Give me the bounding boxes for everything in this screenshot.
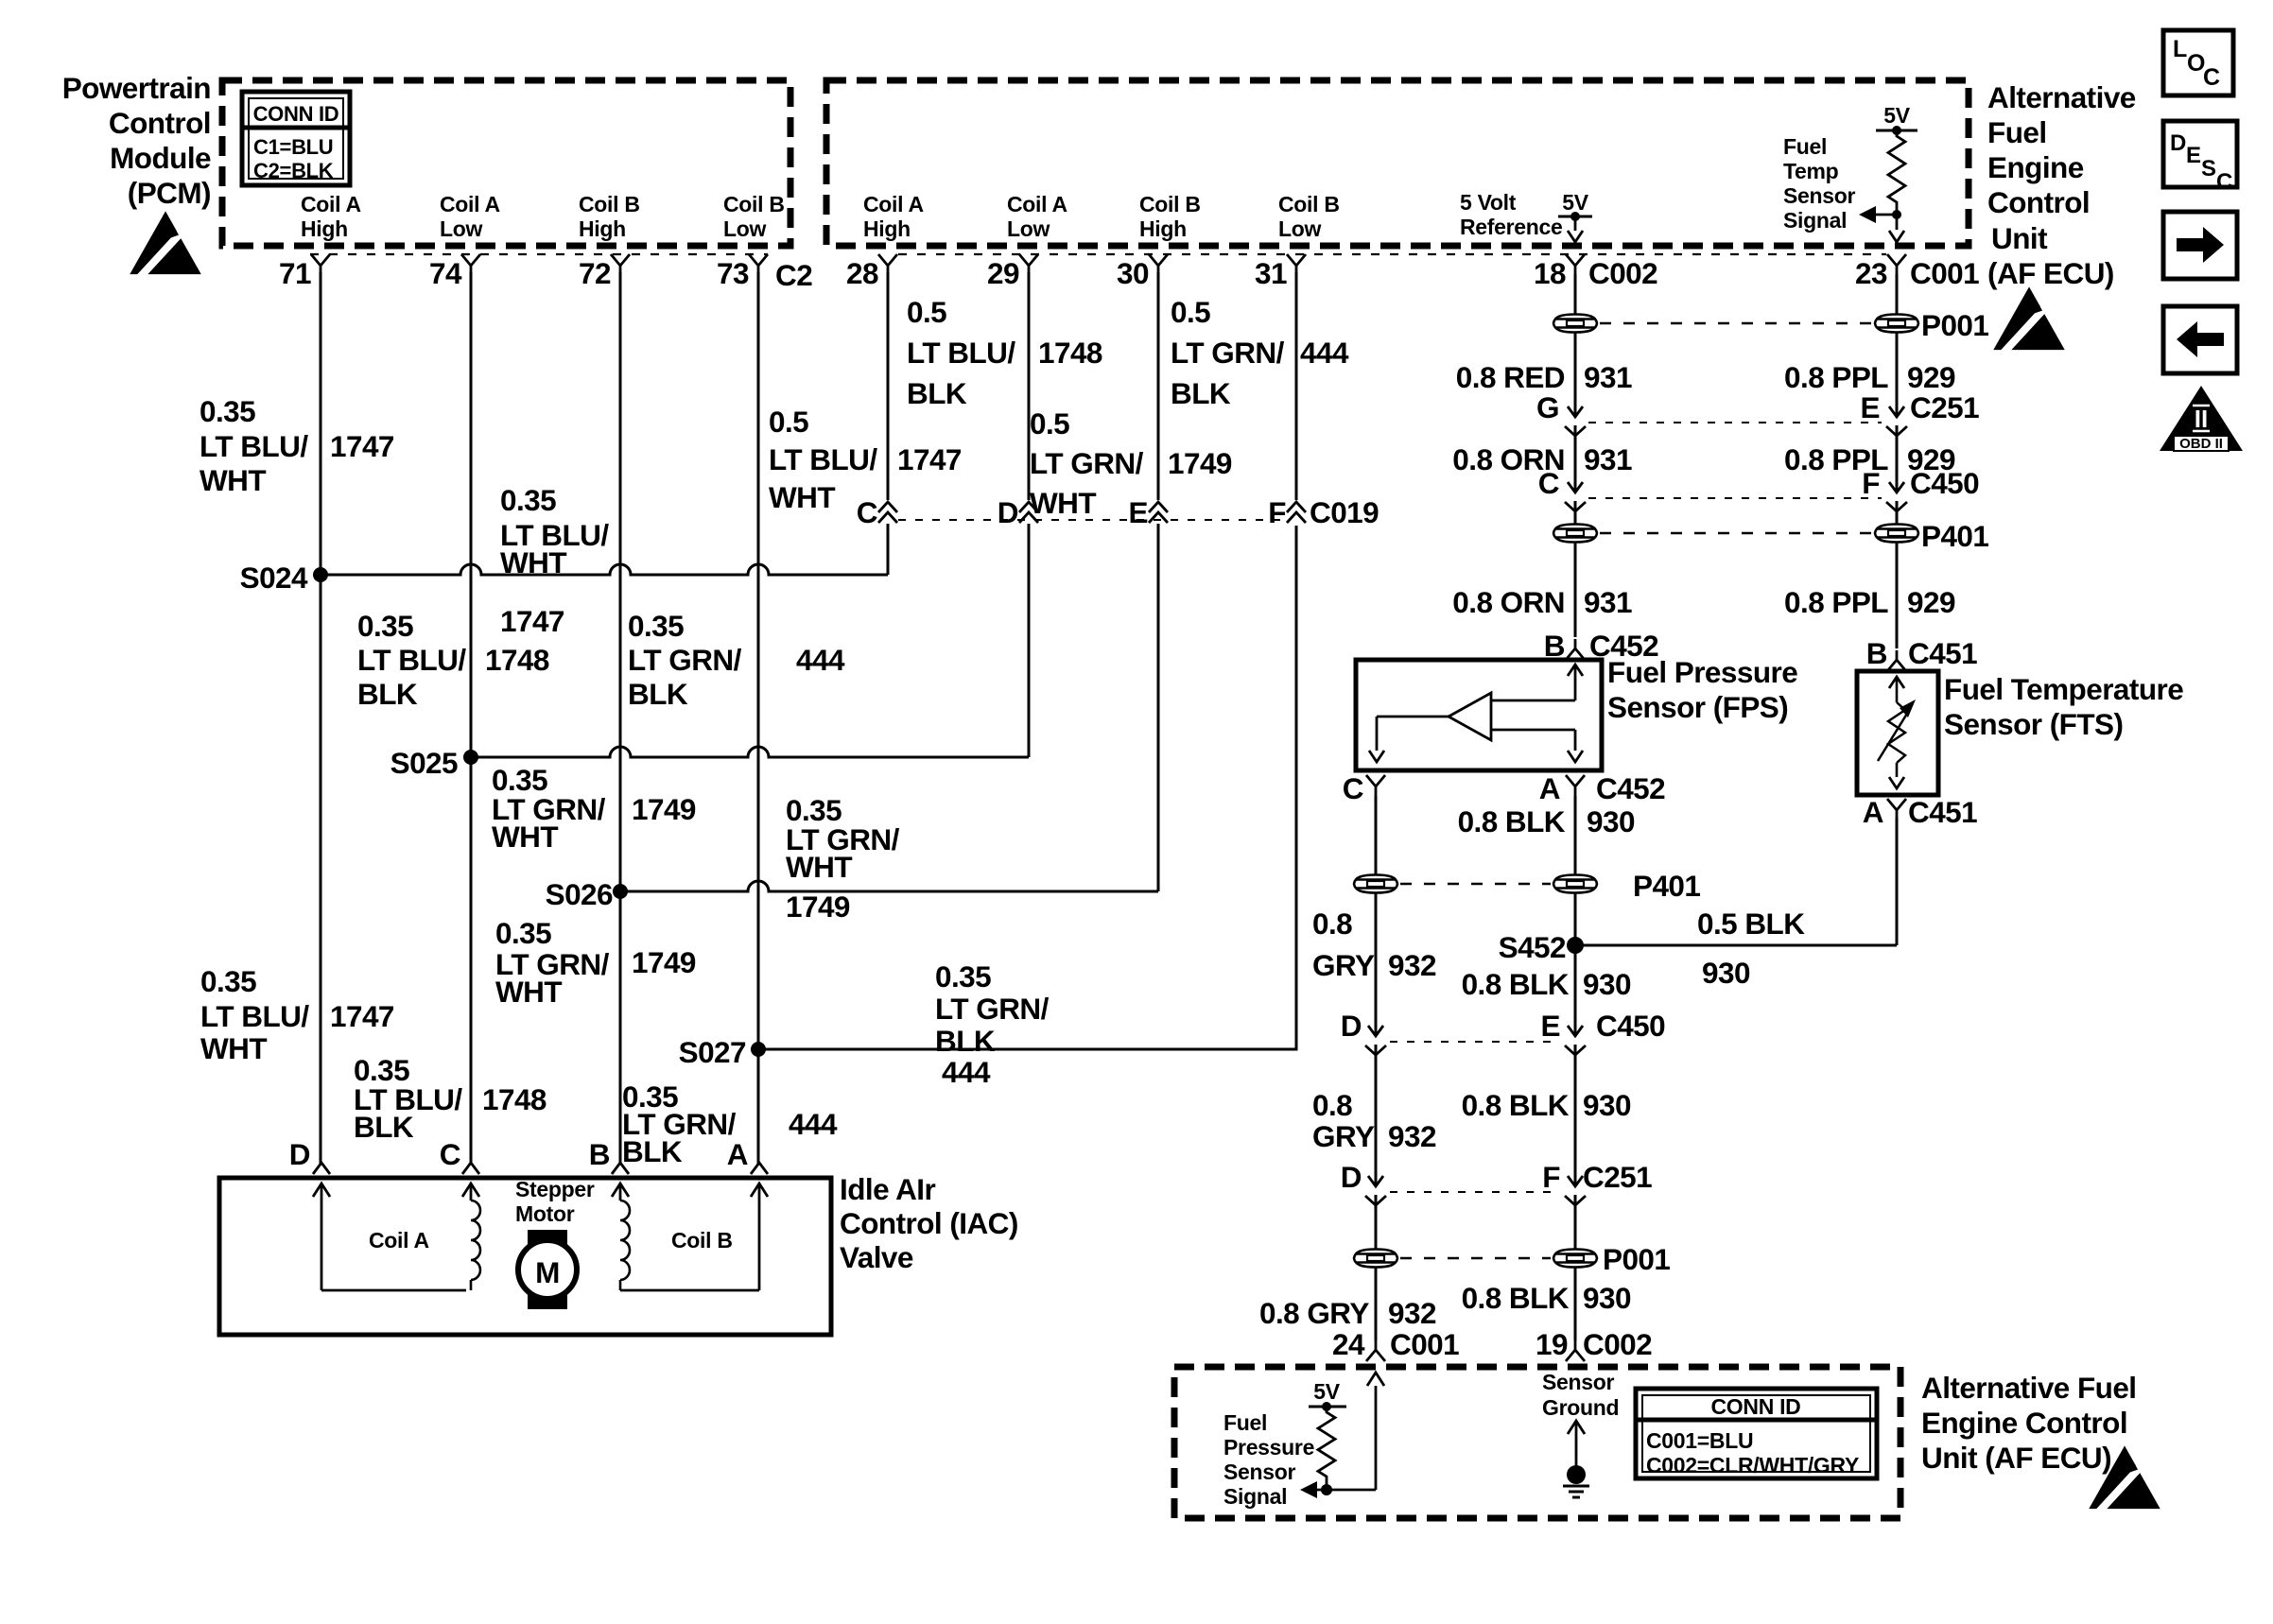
svg-text:Sensor: Sensor [1223,1460,1296,1484]
svg-text:931: 931 [1584,442,1632,476]
svg-text:0.8 BLK: 0.8 BLK [1462,967,1570,1001]
svg-text:0.8 BLK: 0.8 BLK [1458,804,1566,838]
svg-text:C450: C450 [1910,466,1979,500]
svg-text:0.35: 0.35 [200,394,255,428]
svg-text:0.5: 0.5 [907,295,946,329]
P401 grommet right top [1875,525,1918,543]
S026 wire to C019 E [620,881,1158,891]
svg-text:High: High [1139,216,1187,241]
svg-text:LT BLU/: LT BLU/ [200,999,309,1033]
FTS title [1944,672,2183,741]
svg-text:Unit: Unit [1991,221,2048,255]
svg-text:Sensor (FTS): Sensor (FTS) [1944,707,2123,741]
svg-text:C450: C450 [1596,1009,1665,1043]
svg-text:GRY: GRY [1312,948,1375,982]
svg-text:929: 929 [1907,360,1955,394]
label 0.35 LT GRN/BLK 444 on S027 wire [935,959,1050,1089]
label 0.5 LT GRN/WHT 1749 pinE wire [1030,406,1232,520]
label 0.8 BLK 930 seg3 [1462,1088,1631,1122]
svg-text:BLK: BLK [935,1024,996,1058]
svg-text:WHT: WHT [492,820,558,854]
svg-text:0.5: 0.5 [1030,406,1069,441]
label 0.8 RED 931 [1456,360,1632,394]
svg-text:5V: 5V [1562,190,1588,215]
svg-text:D: D [998,495,1018,529]
svg-text:1747: 1747 [330,429,394,463]
svg-text:Low: Low [1278,216,1321,241]
svg-text:Module: Module [110,141,211,175]
svg-text:1749: 1749 [632,792,696,826]
svg-text:E: E [2186,143,2201,168]
svg-text:G: G [1536,390,1559,424]
PCM pin 74 Coil A Low [429,192,500,290]
svg-text:Fuel Pressure: Fuel Pressure [1607,655,1797,689]
svg-text:Engine Control: Engine Control [1921,1406,2127,1440]
label 0.8 ORN 931 seg3 [1452,585,1632,619]
LOC icon [2163,30,2233,95]
svg-text:1748: 1748 [1038,336,1102,370]
IAC title [840,1172,1018,1274]
svg-text:BLK: BLK [357,677,418,711]
svg-text:LT GRN/: LT GRN/ [628,643,742,677]
P401 dashed link top [1600,532,1872,535]
svg-text:LT BLU/: LT BLU/ [769,442,877,476]
DESC icon [2163,121,2237,195]
svg-text:0.35: 0.35 [935,959,991,993]
svg-text:Coil B: Coil B [579,192,640,216]
svg-text:GRY: GRY [1312,1119,1375,1153]
svg-text:1747: 1747 [330,999,394,1033]
svg-text:P401: P401 [1633,869,1700,903]
C019 pin D [998,272,1038,757]
svg-text:74: 74 [429,256,462,290]
PCM connector C2 line [310,253,768,255]
IAC pin D [289,1137,330,1174]
wire 931 seg1 [1574,333,1577,417]
svg-text:LT BLU/: LT BLU/ [200,429,308,463]
C450 dashed row top [1588,497,1882,499]
svg-text:BLK: BLK [354,1110,414,1144]
S452 wire to FTS [1575,818,1897,945]
C251 connector G [1536,390,1586,492]
svg-text:932: 932 [1388,1119,1436,1153]
AF pin 29 Coil A Low [987,192,1067,290]
S025 wire to C019 D [471,747,1029,757]
svg-text:C451: C451 [1908,636,1977,670]
Fuel Pressure Sensor Signal label [1223,1410,1314,1509]
svg-text:Ground: Ground [1542,1395,1619,1420]
P001 dashed link top [1600,322,1872,325]
svg-text:929: 929 [1907,585,1955,619]
C019 pin F [1268,272,1379,529]
svg-text:C: C [857,495,877,529]
svg-text:0.35: 0.35 [200,964,256,998]
P001 dashed link low [1400,1257,1551,1260]
svg-text:Alternative Fuel: Alternative Fuel [1921,1371,2137,1405]
svg-text:A: A [727,1137,748,1171]
FPS signal node and arrows [1300,1373,1384,1498]
svg-text:LT GRN/: LT GRN/ [935,992,1050,1026]
svg-text:S: S [2201,156,2216,181]
label 0.8 BLK 930 seg4 [1462,1281,1631,1315]
AF pin 30 Coil B High [1117,192,1201,290]
svg-text:5V: 5V [1883,103,1910,128]
svg-text:BLK: BLK [1171,376,1231,410]
svg-text:0.8 PPL: 0.8 PPL [1784,585,1888,619]
svg-text:Unit (AF ECU): Unit (AF ECU) [1921,1441,2111,1475]
wire to pin19 [1574,1268,1577,1340]
svg-text:Sensor (FPS): Sensor (FPS) [1607,690,1788,724]
AF pin 23 C001 [1855,254,1979,290]
svg-text:930: 930 [1702,956,1750,990]
wire FPS A down 930 [1574,796,1577,874]
C019 pin E [1129,272,1168,891]
splice S452 [1499,893,1584,1036]
svg-text:Fuel Temperature: Fuel Temperature [1944,672,2183,706]
svg-text:Reference: Reference [1460,215,1563,239]
svg-text:F: F [1862,466,1880,500]
PCM module dashed box [222,80,790,246]
C251 connector F low [1542,1160,1652,1249]
svg-text:931: 931 [1584,585,1632,619]
svg-text:WHT: WHT [786,850,852,884]
svg-text:C019: C019 [1310,495,1379,529]
svg-text:0.35: 0.35 [500,483,556,517]
svg-text:Temp: Temp [1783,159,1839,183]
C450 connector C [1538,466,1586,524]
IAC coil A loop [313,1183,480,1290]
svg-text:24: 24 [1332,1327,1365,1361]
IAC valve box [219,1178,831,1335]
svg-text:0.5 BLK: 0.5 BLK [1697,907,1805,941]
FTS signal arrow to left [1859,206,1904,242]
label 0.8 BLK 930 seg1 [1458,804,1635,838]
svg-text:1748: 1748 [485,643,549,677]
svg-text:S024: S024 [240,561,308,595]
wire 72 vertical [619,272,622,1165]
svg-text:WHT: WHT [200,463,266,497]
svg-text:931: 931 [1584,360,1632,394]
svg-text:930: 930 [1583,967,1631,1001]
splice S024 [240,561,328,595]
svg-text:D: D [289,1137,310,1171]
P001 grommet left top [1553,315,1597,333]
svg-text:WHT: WHT [500,545,566,579]
svg-text:1747: 1747 [897,442,962,476]
PCM pin 72 Coil B High [579,192,640,290]
svg-text:Engine: Engine [1987,150,2084,184]
svg-text:C: C [1343,771,1363,805]
svg-text:(PCM): (PCM) [128,176,211,210]
AF ECU bottom title [1921,1371,2137,1475]
svg-text:E: E [1861,390,1880,424]
svg-text:A: A [1539,771,1560,805]
svg-text:High: High [301,216,348,241]
svg-text:930: 930 [1583,1088,1631,1122]
svg-text:LT GRN/: LT GRN/ [1171,336,1285,370]
label 0.8 PPL 929 seg2 [1784,442,1955,476]
svg-text:F: F [1268,495,1286,529]
label 0.35 LT GRN/BLK 444 wire73 lower [622,1080,838,1168]
svg-text:WHT: WHT [495,975,562,1009]
C019 pin C [857,272,897,575]
svg-text:S027: S027 [679,1035,746,1069]
svg-text:0.8: 0.8 [1312,907,1352,941]
svg-text:Low: Low [1007,216,1050,241]
IAC pin A [727,1137,768,1174]
P401 grommet right mid [1553,875,1597,893]
svg-text:C: C [2203,64,2220,91]
svg-text:932: 932 [1388,1296,1436,1330]
label 0.8 GRY 932 third [1259,1296,1436,1330]
label 0.35 LT GRN/BLK 444 wire72 mid [628,609,845,711]
svg-text:OBD II: OBD II [2179,436,2223,452]
svg-text:LT GRN/: LT GRN/ [1030,446,1144,480]
svg-text:28: 28 [846,256,878,290]
wire 931 seg3 [1574,543,1577,637]
FTS pin B C451 [1866,636,1977,671]
svg-text:C001: C001 [1910,256,1979,290]
svg-text:Signal: Signal [1783,208,1847,233]
wire 73 vertical [757,272,760,1165]
label 0.35 LT BLU/WHT 1747 wire71 upper [200,394,394,497]
Fuel Pressure Sensor box [1356,660,1602,770]
svg-text:Coil A: Coil A [863,192,924,216]
svg-text:Fuel: Fuel [1987,115,2047,149]
P001 grommet right top [1875,315,1918,333]
IAC coil B loop [612,1183,768,1290]
svg-text:Fuel: Fuel [1223,1410,1267,1435]
svg-text:31: 31 [1255,256,1287,290]
wire 71 vertical [320,272,322,1165]
svg-text:D: D [2170,130,2186,156]
AF pin 18 5 Volt Reference [1460,190,1657,290]
svg-text:930: 930 [1587,804,1635,838]
CONN ID table PCM [242,92,350,185]
svg-text:Coil A: Coil A [301,192,361,216]
wire 929 seg1 [1896,333,1899,417]
P401 grommet left top [1553,525,1597,543]
svg-text:WHT: WHT [200,1031,267,1065]
svg-text:C: C [2216,169,2232,195]
label 0.35 LT BLU/BLK 1748 wire74 mid [357,609,549,711]
FTS pin A C451 [1863,795,1977,829]
svg-text:High: High [863,216,911,241]
svg-text:P001: P001 [1603,1242,1670,1276]
svg-text:C251: C251 [1910,390,1979,424]
svg-text:5 Volt: 5 Volt [1460,190,1517,215]
wire 929 seg3 [1896,543,1899,648]
svg-text:30: 30 [1117,256,1149,290]
splice S026 [546,877,628,911]
wire to pin24 [1375,1268,1378,1340]
svg-text:29: 29 [987,256,1019,290]
Sensor Ground label [1542,1370,1619,1420]
svg-text:444: 444 [942,1055,991,1089]
svg-text:Coil B: Coil B [671,1228,733,1253]
ESD symbol top right [1993,286,2064,355]
arrow left icon [2163,306,2237,373]
svg-text:0.8: 0.8 [1312,1088,1352,1122]
C251 dashed row top [1588,422,1882,423]
AF ECU top dashed box [826,80,1969,246]
svg-text:1749: 1749 [1168,446,1232,480]
svg-text:C1=BLU: C1=BLU [253,135,333,159]
AF pin 19 C002 [1536,1327,1652,1361]
svg-text:71: 71 [279,256,311,290]
FPS pin C [1343,771,1385,805]
splice S025 [390,746,478,780]
P001 grommet left low [1354,1250,1397,1268]
S027 wire right and up to C019 F [758,526,1296,1049]
svg-text:0.35: 0.35 [495,916,551,950]
FPS pin B C452 [1544,629,1658,663]
svg-text:Alternative: Alternative [1987,80,2136,114]
PCM pin 71 Coil A High [279,192,361,290]
svg-text:CONN ID: CONN ID [253,102,339,126]
label 0.8 BLK 930 seg2 [1462,967,1631,1001]
svg-text:72: 72 [579,256,611,290]
arrow right icon [2163,212,2237,279]
svg-text:C002: C002 [1583,1327,1652,1361]
Fuel Temp Sensor Signal label [1783,134,1856,233]
svg-text:C: C [440,1137,460,1171]
svg-text:C452: C452 [1596,771,1665,805]
svg-text:C001: C001 [1390,1327,1459,1361]
svg-text:WHT: WHT [769,480,835,514]
svg-text:0.8 PPL: 0.8 PPL [1784,360,1888,394]
C450 connector D mid [1341,1009,1386,1186]
label 0.8 GRY 932 first [1312,907,1436,982]
sensor ground symbol [1563,1421,1589,1497]
svg-text:0.8 BLK: 0.8 BLK [1462,1281,1570,1315]
svg-text:High: High [579,216,626,241]
svg-text:0.5: 0.5 [769,405,808,439]
svg-text:Pressure: Pressure [1223,1435,1314,1460]
stepper motor label [515,1177,595,1226]
svg-text:S025: S025 [390,746,458,780]
svg-text:F: F [1542,1160,1560,1194]
svg-text:0.8 RED: 0.8 RED [1456,360,1565,394]
ESD symbol PCM [130,211,200,280]
svg-text:Sensor: Sensor [1783,183,1856,208]
label 0.8 GRY 932 second [1312,1088,1436,1153]
svg-text:LT BLU/: LT BLU/ [907,336,1015,370]
svg-text:Low: Low [440,216,482,241]
OBD II icon [2160,386,2243,452]
5V supply symbol FTS signal [1876,103,1917,135]
ESD symbol bottom right [2089,1445,2160,1514]
svg-text:C451: C451 [1908,795,1977,829]
AF ECU title text top right [1987,80,2136,290]
svg-text:444: 444 [789,1107,838,1141]
svg-text:Stepper: Stepper [515,1177,595,1201]
FPS title [1607,655,1797,724]
wire GRY seg1 [1375,893,1378,1036]
PCM pin 73 Coil B Low [717,192,785,290]
svg-text:M: M [535,1255,560,1289]
svg-text:0.5: 0.5 [1171,295,1210,329]
svg-text:0.35: 0.35 [628,609,684,643]
IAC pin C [440,1137,479,1174]
svg-text:Coil B: Coil B [1278,192,1340,216]
wire FPS C down [1375,796,1378,874]
svg-text:C2=BLK: C2=BLK [253,159,334,182]
svg-text:1748: 1748 [482,1082,547,1116]
svg-text:Coil A: Coil A [1007,192,1067,216]
svg-text:B: B [589,1137,610,1171]
C019 connector row dashed [898,519,1286,521]
AF pin 24 C001 [1332,1327,1459,1361]
svg-text:Coil B: Coil B [723,192,785,216]
svg-text:C002: C002 [1588,256,1657,290]
C251 connector D low [1341,1160,1386,1249]
CONN ID table bottom [1636,1389,1877,1478]
svg-text:0.8 GRY: 0.8 GRY [1259,1296,1369,1330]
svg-text:0.35: 0.35 [357,609,413,643]
svg-text:Idle AIr: Idle AIr [840,1172,935,1206]
svg-text:1749: 1749 [786,890,850,924]
svg-text:18: 18 [1534,256,1566,290]
svg-text:LT BLU/: LT BLU/ [357,643,466,677]
svg-text:E: E [1541,1009,1560,1043]
resistor FTS pull-up [1888,130,1905,208]
svg-text:WHT: WHT [1030,486,1096,520]
svg-text:Control: Control [109,106,211,140]
splice S027 [679,1035,766,1069]
IAC pin B [589,1137,629,1174]
label 0.8 PPL 929 seg1 [1784,360,1955,394]
svg-text:L: L [2173,36,2187,62]
5V supply symbol pin18 [1558,190,1592,242]
svg-text:C251: C251 [1583,1160,1652,1194]
svg-text:C002=CLR/WHT/GRY: C002=CLR/WHT/GRY [1646,1453,1859,1477]
svg-text:Valve: Valve [840,1240,913,1274]
svg-text:Sensor: Sensor [1542,1370,1615,1394]
svg-text:Signal: Signal [1223,1484,1287,1509]
svg-text:73: 73 [717,256,749,290]
svg-text:CONN ID: CONN ID [1710,1394,1800,1419]
P401 dashed link mid [1400,883,1551,886]
label 0.35 LT BLU/WHT 1747 wire71 lower [200,964,394,1065]
5V symbol bottom [1309,1379,1346,1411]
svg-text:444: 444 [1300,336,1349,370]
svg-text:5V: 5V [1313,1379,1340,1404]
FPS pin A C452 [1539,771,1665,805]
label 0.35 LT BLU/WHT 1747 on S024 wire [500,483,609,638]
C450 connector E mid [1541,1009,1666,1186]
label 0.5 LT BLU/WHT 1747 pinC wire [769,405,962,514]
C251 connector E [1861,390,1980,492]
svg-text:Control (IAC): Control (IAC) [840,1206,1018,1240]
label 0.8 ORN 931 seg2 [1452,442,1632,476]
svg-text:II: II [2195,405,2208,433]
svg-text:0.8 BLK: 0.8 BLK [1462,1088,1570,1122]
svg-text:C001=BLU: C001=BLU [1646,1428,1753,1453]
svg-text:D: D [1341,1160,1362,1194]
label 0.35 LT BLU/BLK 1748 wire74 lower [354,1053,547,1144]
svg-text:BLK: BLK [628,677,688,711]
P001 grommet right low [1553,1250,1597,1268]
C450 connector F [1862,466,1979,524]
svg-text:Powertrain: Powertrain [62,71,211,105]
AF pin 31 Coil B Low [1255,192,1340,290]
label 0.8 PPL 929 seg3 [1784,585,1955,619]
label 0.35 LT GRN/WHT 1749 wire72 lower [495,916,696,1009]
wire 74 vertical [470,272,473,1165]
svg-text:23: 23 [1855,256,1887,290]
label 0.35 LT GRN/WHT 1749 wire72 upper [492,763,696,854]
